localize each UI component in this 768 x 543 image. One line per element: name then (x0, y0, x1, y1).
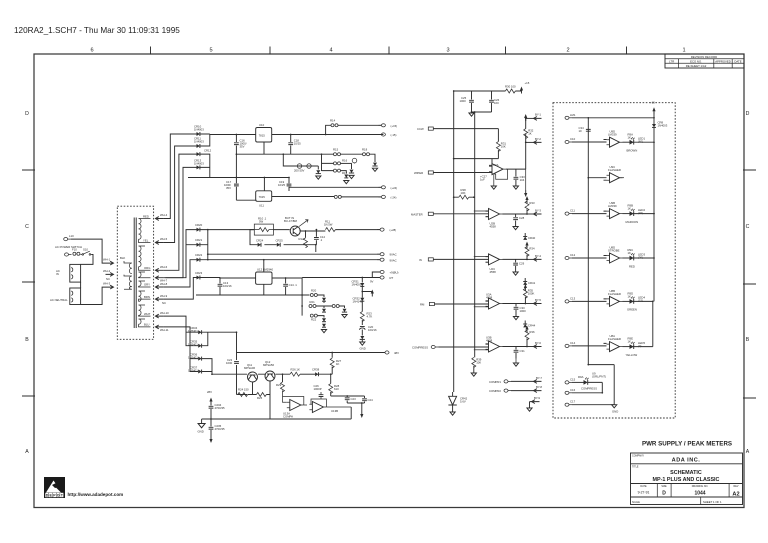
svg-text:9V: 9V (370, 280, 374, 284)
svg-text:1N4003: 1N4003 (194, 140, 204, 144)
connector arrow BY-1 (526, 117, 534, 119)
svg-text:R18: R18 (362, 148, 368, 152)
svg-text:D: D (746, 111, 750, 117)
svg-text:WH-5: WH-5 (160, 237, 168, 241)
svg-text:ORG: ORG (144, 266, 150, 270)
left edge ticks (22, 170, 35, 396)
svg-text:GRY: GRY (144, 283, 150, 287)
ground (342, 315, 347, 318)
wire to zener (370, 154, 376, 162)
svg-text:WH-11: WH-11 (160, 328, 169, 332)
wire bottom rail (202, 407, 352, 419)
svg-text:1K: 1K (528, 132, 532, 136)
svg-text:4558: 4558 (490, 225, 497, 229)
connector arrow WH-1 (106, 261, 114, 265)
svg-text:1000: 1000 (226, 361, 233, 365)
svg-text:R21: R21 (310, 300, 316, 304)
terminal C10 (565, 116, 572, 119)
wire to power arrow (515, 89, 521, 92)
svg-text:WH-4: WH-4 (160, 213, 168, 217)
power arrow +15 (520, 87, 523, 94)
zener CR19 (316, 170, 321, 173)
ground U2A (493, 175, 495, 186)
svg-text:RE-SHEET 1/A2: RE-SHEET 1/A2 (686, 64, 707, 68)
svg-text:(-15): (-15) (391, 133, 397, 137)
svg-text:GND: GND (360, 347, 366, 351)
svg-text:WIPER: WIPER (414, 171, 423, 175)
svg-text:1N4003: 1N4003 (194, 162, 204, 166)
resistor R12 (305, 231, 307, 238)
right rail wire (653, 109, 655, 301)
svg-text:FLASHER: FLASHER (608, 168, 621, 172)
power arrow -15 down (360, 411, 363, 418)
diode CR22 (197, 258, 200, 262)
transistor Q11 (248, 372, 258, 382)
terminal (+15) (378, 124, 385, 127)
ground C30 (513, 317, 518, 320)
power arrow (525, 326, 528, 333)
wire switch to connector J10 (81, 255, 93, 265)
diode CR21 (197, 243, 200, 247)
wire to comparator (572, 140, 607, 143)
svg-text:MASTER: MASTER (411, 212, 423, 216)
svg-text:ECO NO.: ECO NO. (690, 59, 702, 63)
ground caps (469, 113, 474, 116)
wire to +15 terminal (338, 124, 381, 126)
wire to LED (572, 381, 584, 383)
svg-text:1K: 1K (628, 295, 632, 299)
connector arrow BY-5 (525, 303, 533, 305)
wire riser tap WH-7b to rectifiers (165, 167, 196, 277)
wire U3B output (503, 338, 528, 346)
wire COMPRESS to opamp (438, 344, 488, 350)
svg-text:10K: 10K (461, 191, 466, 195)
connector J11 AC NEUTRAL (70, 288, 81, 305)
svg-text:D: D (662, 491, 666, 497)
svg-text:5.6V: 5.6V (460, 400, 466, 404)
svg-text:BRN: BRN (144, 295, 150, 299)
wire emitter rail (237, 394, 257, 396)
wire U2A feedback (492, 169, 508, 179)
wire J11 to WH-3 (81, 287, 106, 304)
ground (372, 168, 377, 171)
svg-text:CR25: CR25 (276, 239, 284, 243)
diode CR32 (360, 298, 364, 301)
transformer core (134, 218, 136, 329)
capacitor C19 10/25 (288, 178, 290, 192)
svg-text:1K: 1K (628, 340, 632, 344)
opamp U13B (309, 402, 326, 413)
svg-text:R12: R12 (299, 237, 305, 241)
svg-text:R15: R15 (333, 148, 339, 152)
terminal C13 (565, 256, 572, 259)
svg-text:DRAWING NO.: DRAWING NO. (692, 485, 709, 488)
capacitor C204 4700/35 (210, 404, 212, 420)
svg-text:C10: C10 (570, 137, 576, 141)
svg-text:TITLE: TITLE (632, 465, 639, 468)
ground (349, 175, 354, 178)
svg-text:BY-7: BY-7 (536, 376, 542, 380)
LED DS6 YELLOW (623, 346, 630, 348)
svg-text:DATE: DATE (640, 485, 647, 488)
terminal C15 (565, 344, 572, 347)
svg-text:9-27-91: 9-27-91 (638, 491, 650, 495)
svg-text:CR24: CR24 (256, 239, 264, 243)
svg-text:U12 LM2940: U12 LM2940 (257, 268, 273, 272)
svg-text:1N5401: 1N5401 (188, 356, 198, 360)
svg-text:(-24): (-24) (391, 196, 397, 200)
svg-text:R34: R34 (529, 247, 535, 251)
svg-text:WH-10: WH-10 (160, 311, 169, 315)
ground C28 (513, 227, 518, 230)
fuse F12 (334, 195, 341, 198)
wire to rail (633, 346, 653, 348)
svg-text:O: O (57, 494, 60, 498)
svg-text:4700/35: 4700/35 (215, 427, 226, 431)
terminal C17 (565, 391, 572, 394)
wire (361, 330, 363, 336)
svg-text:1uF: 1uF (480, 178, 485, 182)
diode CR23 (197, 276, 200, 280)
terminal C14 (565, 300, 572, 303)
svg-text:BY-6: BY-6 (535, 341, 541, 345)
wire (341, 171, 347, 174)
wire riser tap WH-4 to rectifiers (163, 134, 196, 219)
svg-text:http://www.adadepot.com: http://www.adadepot.com (68, 492, 124, 497)
svg-text:5: 5 (209, 48, 212, 54)
wire LED loop (572, 382, 602, 392)
wire to rail (633, 141, 654, 143)
svg-text:35V: 35V (240, 145, 245, 149)
protection cluster: bus wire (322, 154, 334, 171)
capacitor C23 10/25 (345, 398, 350, 400)
wire +15 rail (272, 125, 384, 134)
svg-text:B: B (25, 337, 29, 343)
svg-text:COMPR2: COMPR2 (489, 389, 501, 393)
svg-text:R25: R25 (257, 396, 263, 400)
wire to comparator (572, 211, 607, 214)
diode CR24 (258, 243, 261, 247)
ADA depot logo (44, 477, 65, 498)
wire WIPER to opamp (433, 171, 492, 174)
resistor R38 10K (454, 196, 474, 198)
terminal COMPR OUT 2 (504, 389, 511, 392)
wire rectifier outputs to rails (200, 230, 380, 278)
power arrow +28 up (209, 398, 212, 405)
diode CR40 (524, 233, 526, 236)
svg-text:COMPANY: COMPANY (632, 455, 644, 458)
wire to arrow (511, 380, 534, 382)
fuse F14 (363, 153, 370, 156)
wire (317, 316, 324, 318)
svg-text:3: 3 (446, 48, 449, 54)
diode CR11 1N4003 (197, 144, 200, 148)
svg-text:MP-1 PLUS AND CLASSIC: MP-1 PLUS AND CLASSIC (653, 477, 720, 483)
wire rail to power (525, 116, 527, 142)
op-amp U2A (489, 164, 506, 175)
fuse F20 (310, 314, 317, 317)
capacitor C31 (515, 347, 517, 359)
svg-text:C: C (25, 224, 29, 230)
svg-text:5W: 5W (259, 220, 264, 224)
svg-text:1K: 1K (336, 362, 340, 366)
capacitor C29 (515, 259, 517, 271)
power arrow -15 (524, 190, 527, 197)
svg-text:1K/5W: 1K/5W (324, 223, 333, 227)
svg-text:BROWN: BROWN (627, 149, 638, 153)
wire to arrow (511, 390, 534, 392)
svg-text:SHEET 1 OF 1: SHEET 1 OF 1 (703, 500, 722, 504)
resistor R31 10K (496, 142, 500, 152)
svg-text:CR20: CR20 (195, 223, 203, 227)
svg-text:A: A (746, 449, 750, 455)
svg-text:BLU: BLU (144, 323, 149, 327)
svg-text:R16: R16 (342, 159, 348, 163)
top ruler ticks (151, 47, 627, 55)
svg-text:IN: IN (56, 272, 59, 276)
LED DS2 BROWN (623, 141, 630, 143)
diode CR10 1N4003 (197, 132, 200, 136)
wire +15 bus top (454, 91, 506, 392)
svg-text:C28: C28 (519, 216, 525, 220)
svg-text:RED: RED (143, 215, 149, 219)
ground (316, 176, 321, 179)
terminal 9VAC-1 (377, 253, 384, 256)
svg-text:1044: 1044 (694, 491, 705, 497)
wire (316, 306, 332, 308)
MOV branch wire (283, 154, 318, 169)
capacitor C16 1000/35 (235, 135, 237, 155)
comparator U8B (607, 296, 623, 306)
svg-text:A2: A2 (732, 492, 739, 498)
svg-text:BLK: BLK (120, 256, 125, 260)
svg-text:R36: R36 (529, 330, 535, 334)
resistor R36 (525, 330, 529, 340)
svg-text:(30): (30) (638, 255, 643, 259)
power arrow +15 rail (524, 114, 527, 121)
svg-text:FLASHER: FLASHER (608, 292, 621, 296)
svg-text:U10: U10 (259, 123, 265, 127)
svg-text:GND: GND (198, 430, 204, 434)
terminal C16 (565, 381, 572, 384)
svg-text:BY-8: BY-8 (536, 385, 542, 389)
ground C29 (513, 272, 518, 275)
LED DS5 GREEN (623, 300, 630, 302)
svg-text:4700/35: 4700/35 (215, 406, 226, 410)
svg-text:SCALE: SCALE (632, 501, 640, 504)
svg-text:C24: C24 (368, 398, 374, 402)
power arrow (525, 242, 528, 249)
ground BY-9 (527, 408, 532, 411)
svg-text:C11: C11 (570, 209, 575, 213)
capacitor C30 1uF (515, 304, 517, 317)
svg-text:CCW: CCW (417, 127, 424, 131)
capacitor C32 10 (586, 129, 591, 131)
svg-text:R20: R20 (311, 289, 317, 293)
svg-text:(+24): (+24) (391, 186, 398, 190)
lamp DS1 (352, 158, 357, 163)
diode CR30 (322, 324, 326, 327)
svg-text:10K: 10K (501, 145, 506, 149)
terminal (9RT) (377, 276, 384, 279)
wire to bus (572, 117, 654, 119)
wire junction dots (207, 90, 655, 420)
svg-text:R26 1K: R26 1K (291, 368, 300, 372)
fuse F11 (331, 124, 338, 127)
svg-text:AC POWER SWITCH: AC POWER SWITCH (55, 245, 82, 249)
svg-text:REV: REV (734, 485, 739, 488)
svg-text:(+28): (+28) (390, 228, 397, 232)
diode CR43 (652, 124, 656, 127)
svg-text:(GRL/PNT): (GRL/PNT) (592, 374, 606, 378)
svg-text:9VAC: 9VAC (390, 253, 397, 257)
resistor R23 4.7K (360, 312, 364, 322)
wire U2A output rail (506, 142, 526, 169)
terminal (+9) (378, 186, 385, 189)
wire to 9V terminal (341, 196, 381, 198)
comparator U8A (607, 342, 623, 352)
svg-text:1N4003: 1N4003 (194, 128, 204, 132)
terminal (48V) (382, 351, 389, 354)
svg-text:10/25: 10/25 (294, 142, 301, 146)
resistor R34 (525, 246, 529, 256)
wire +48 rail to terminal (237, 353, 386, 358)
svg-text:WH-9: WH-9 (160, 294, 168, 298)
terminal (9V) (378, 195, 385, 198)
connector arrow BY-3 (527, 213, 534, 215)
svg-text:C14 .1: C14 .1 (289, 283, 298, 287)
diode CR13 1N4003 (197, 165, 200, 169)
wire to lamp (341, 162, 352, 164)
connector arrow BY-4 (527, 258, 534, 260)
svg-text:MPSA56: MPSA56 (263, 363, 274, 367)
svg-text:1000: 1000 (460, 99, 467, 103)
secondary winding S1 taps (139, 219, 151, 243)
capacitor C33 (515, 169, 517, 185)
svg-text:DATE: DATE (734, 59, 741, 63)
wire (361, 320, 363, 325)
ground (321, 330, 326, 333)
terminal box WIPER (428, 171, 433, 174)
svg-text:2: 2 (566, 48, 569, 54)
svg-text:R22: R22 (311, 318, 317, 322)
wire riser tap WH-11 (163, 327, 198, 372)
tap arrow WH-4 (155, 217, 163, 221)
wire +9 distribution (196, 278, 310, 316)
svg-text:10: 10 (579, 129, 583, 133)
svg-text:CR44: CR44 (528, 324, 536, 328)
connector arrow WH-2 NC (106, 273, 114, 277)
svg-text:ADA INC.: ADA INC. (672, 457, 701, 463)
svg-text:WH-1: WH-1 (103, 258, 111, 262)
power arrow down (209, 436, 212, 443)
tap arrow WH-5 (155, 241, 163, 245)
ground C31 (515, 359, 517, 363)
svg-text:D: D (46, 494, 49, 498)
wire emitter rail (300, 230, 325, 231)
svg-text:CR12: CR12 (204, 149, 212, 153)
wire loop under R10 (250, 230, 316, 252)
diode CR37 (198, 370, 201, 374)
wire U3A output (503, 297, 526, 304)
svg-text:(0): (0) (638, 344, 641, 348)
svg-text:C29: C29 (519, 262, 525, 266)
svg-text:4558: 4558 (486, 339, 493, 343)
transistor Q12 (265, 371, 275, 381)
svg-text:YEL: YEL (143, 239, 149, 243)
wire L10 to WH-1 (71, 239, 106, 263)
ground (344, 181, 349, 184)
wire riser tap WH-6 to rectifiers (163, 154, 196, 270)
regulator U12 LM2940 (256, 272, 272, 284)
svg-text:1N4003: 1N4003 (352, 283, 362, 287)
terminal box MASTER (428, 212, 433, 215)
wire +9 rail to terminals (302, 272, 380, 278)
terminal E2 AC hot (65, 253, 72, 256)
svg-text:BY-5: BY-5 (535, 298, 541, 302)
terminal (+9BU) (377, 270, 384, 273)
resistor R35 100K (523, 288, 527, 298)
svg-text:(15): (15) (638, 299, 643, 303)
svg-text:C17: C17 (570, 400, 576, 404)
svg-text:WH-6: WH-6 (160, 265, 168, 269)
svg-text:STROBE: STROBE (608, 248, 620, 252)
svg-text:FLASHER: FLASHER (608, 337, 621, 341)
tap arrow WH-11 (155, 325, 163, 329)
diode CR29 (322, 318, 326, 321)
primary winding P1 (124, 261, 132, 274)
fuse F18 (309, 305, 316, 308)
svg-text:CR38: CR38 (312, 368, 320, 372)
wire rectifier merge (202, 332, 247, 394)
bus wire (588, 118, 614, 405)
wire to ground (572, 404, 614, 406)
svg-text:PWR SUPPLY / PEAK METERS: PWR SUPPLY / PEAK METERS (642, 441, 732, 448)
wire row5 to opamp (434, 301, 488, 307)
wire IN to opamp (433, 257, 488, 263)
svg-text:1N5401: 1N5401 (188, 329, 198, 333)
svg-text:1N4003: 1N4003 (658, 124, 668, 128)
svg-text:SCHEMATIC: SCHEMATIC (670, 470, 702, 476)
resistor R10 .1 5W (boxed) (254, 224, 273, 235)
svg-text:C16: C16 (570, 388, 576, 392)
svg-text:1K: 1K (628, 251, 632, 255)
wire J10 to J11 (80, 282, 82, 288)
wire U13B feedback (311, 399, 351, 407)
svg-text:1K: 1K (628, 135, 632, 139)
svg-text:(60): (60) (638, 140, 643, 144)
regulator U10 7815 (256, 128, 272, 143)
resistor R28 610 (329, 384, 333, 394)
transformer T1 dashed enclosure (117, 206, 153, 339)
svg-text:LM1: LM1 (570, 113, 576, 117)
svg-text:U13B: U13B (331, 409, 338, 413)
svg-text:SIZE: SIZE (661, 485, 667, 488)
svg-text:6: 6 (90, 48, 93, 54)
zener CR17 (349, 170, 354, 173)
capacitor C12 .1 (315, 230, 317, 245)
capacitor C24 1uF (362, 399, 367, 401)
capacitor C18 10/25 (290, 135, 292, 155)
wire rectifier outputs (188, 134, 289, 191)
svg-text:BY-3: BY-3 (535, 209, 541, 213)
capacitor C14 .1 (285, 278, 287, 295)
power arrow branch (362, 286, 372, 297)
ground CR42 (450, 412, 455, 415)
svg-text:LM339: LM339 (608, 204, 617, 208)
svg-text:COMPR1: COMPR1 (489, 380, 501, 384)
diode CR27 (322, 309, 326, 312)
